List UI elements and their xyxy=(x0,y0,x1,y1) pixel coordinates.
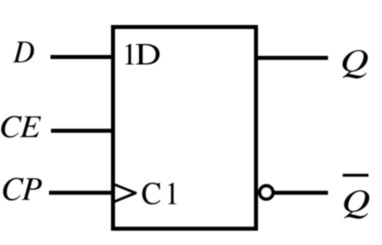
inversion bubble on Q-bar output xyxy=(260,186,273,199)
label D (input node D) xyxy=(13,42,34,63)
wire: D input xyxy=(51,55,114,59)
wire: CP clock input xyxy=(49,191,113,195)
dynamic clock input indicator (edge-trigger triangle) xyxy=(114,184,136,202)
wire: Q output xyxy=(256,56,328,60)
wire: CE input xyxy=(51,129,113,133)
label CP (input node CP) xyxy=(3,178,42,201)
label Q-bar: overline bar xyxy=(343,174,369,177)
pin label C1 (clock pin) xyxy=(142,183,176,205)
pin label 1D (data input pin) xyxy=(125,44,159,65)
wire: Q-bar output xyxy=(274,191,328,195)
label CE (input node CE) xyxy=(1,116,41,138)
label Q (output node Q) xyxy=(343,50,368,78)
label Q-bar (output node Q-bar): letter Q xyxy=(344,190,369,218)
flip-flop box U1 (D latch body) xyxy=(113,27,256,229)
